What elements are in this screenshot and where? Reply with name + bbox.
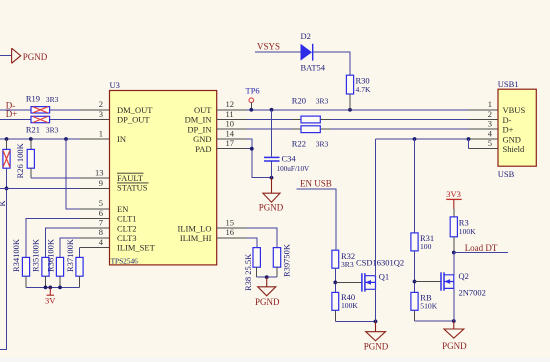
wire OUT row to USB: [247, 109, 469, 111]
svg-text:4.7K: 4.7K: [356, 85, 371, 94]
resistor R36 100K: [46, 238, 64, 287]
capacitor C34 100uF/10V: [264, 153, 310, 177]
junction: [348, 108, 352, 112]
wire DM_IN row: [247, 119, 292, 121]
resistor R35 100K: [31, 238, 49, 287]
transistor Q1 CSD16301Q2: [356, 258, 404, 292]
pin 10 stub U3: [217, 128, 247, 130]
wire R19 to pin2: [50, 109, 80, 111]
svg-text:9: 9: [99, 178, 103, 188]
resistor R26 100K: [15, 139, 35, 178]
svg-text:R21: R21: [26, 125, 40, 135]
wire Load DT: [454, 252, 508, 254]
resistor R34 100K: [11, 238, 29, 287]
U3 left pin names: [117, 105, 156, 253]
svg-text:DP_IN: DP_IN: [187, 124, 211, 134]
wire DP_IN row: [247, 128, 292, 130]
junction: [249, 108, 253, 112]
wire R21 to pin3: [50, 119, 80, 121]
svg-text:R22: R22: [292, 138, 306, 148]
svg-text:PGND: PGND: [255, 297, 280, 307]
wire D- from edge: [0, 109, 31, 111]
wire VSYS: [255, 51, 301, 53]
svg-text:CLT1: CLT1: [117, 214, 137, 224]
wire Q2 gate: [415, 281, 442, 283]
svg-text:6: 6: [99, 208, 103, 218]
svg-text:CLT2: CLT2: [117, 223, 137, 233]
pin 12 stub U3: [217, 109, 247, 111]
pin 5 stub USB1: [469, 148, 499, 150]
resistor R22 3R3: [292, 126, 331, 149]
pin 14 stub U3: [217, 138, 247, 140]
pin 17 stub U3: [217, 148, 247, 150]
svg-text:ILIM_SET: ILIM_SET: [117, 243, 156, 253]
svg-text:C34: C34: [282, 153, 297, 163]
svg-text:100K: 100K: [341, 301, 358, 310]
resistor R39 750K: [273, 243, 291, 277]
wire R38/R39 bottoms: [257, 276, 277, 278]
overline FAULT: [117, 172, 144, 174]
wire Q1 source down: [375, 289, 377, 321]
svg-text:3: 3: [99, 109, 103, 119]
svg-text:R36100K: R36100K: [46, 238, 56, 272]
svg-text:TPS2546: TPS2546: [111, 257, 139, 266]
svg-text:FAULT: FAULT: [117, 173, 144, 183]
svg-text:5: 5: [99, 198, 103, 208]
junction: [5, 187, 9, 191]
sheet bottom edge strip: [0, 358, 550, 362]
svg-text:3R3: 3R3: [46, 126, 59, 135]
resistor R38 25.5K: [243, 248, 261, 291]
svg-text:2: 2: [488, 109, 492, 119]
wire Q2 drain: [453, 253, 455, 275]
pin 3 stub U3: [80, 119, 110, 121]
svg-text:Shield: Shield: [503, 144, 525, 154]
svg-text:GND: GND: [193, 134, 211, 144]
junction: [58, 286, 62, 290]
wire FAULT to R26: [31, 177, 80, 179]
junction: [452, 251, 456, 255]
svg-text:14: 14: [226, 128, 235, 138]
wire R32 to R40: [334, 268, 336, 292]
svg-text:R34100K: R34100K: [11, 238, 21, 272]
pin 8 stub U3: [80, 237, 110, 239]
resistor R19 3R3 (DNP): [26, 94, 59, 114]
svg-text:1: 1: [488, 99, 492, 109]
wire Q1 drain from GND row: [375, 139, 377, 276]
svg-text:TP6: TP6: [246, 85, 260, 95]
wire IN node row: [0, 138, 80, 140]
svg-text:3R3: 3R3: [316, 96, 329, 105]
wire GND row (USB side): [376, 138, 469, 140]
wire PAD node down to C34 bottom: [247, 149, 272, 178]
svg-text:VSYS: VSYS: [257, 42, 280, 52]
svg-text:3R3: 3R3: [46, 95, 59, 104]
pin 1 stub U3: [80, 138, 110, 140]
diode D2 BAT54: [301, 31, 326, 73]
svg-text:100K: 100K: [459, 227, 476, 236]
pin 5 stub U3: [80, 208, 110, 210]
wire R31 drop from GND row: [414, 139, 416, 233]
svg-text:EN: EN: [117, 204, 128, 214]
svg-text:12: 12: [226, 99, 235, 109]
wire Q1 gate: [335, 281, 362, 283]
wire GND pin to PAD: [247, 139, 252, 149]
wire EN from IN node: [66, 139, 80, 209]
junction: [467, 137, 471, 141]
pin 16 stub U3: [217, 237, 247, 239]
svg-text:PGND: PGND: [259, 202, 284, 212]
wire R20 to USB: [331, 119, 469, 121]
svg-text:3R3: 3R3: [316, 139, 329, 148]
U3 right pin numbers: [226, 99, 235, 237]
junction: [5, 137, 9, 141]
pin 6 stub U3: [80, 218, 110, 220]
wire D+ from edge: [0, 119, 31, 121]
svg-text:3R3: 3R3: [341, 260, 354, 269]
svg-text:Load DT: Load DT: [465, 243, 498, 253]
svg-text:PGND: PGND: [364, 341, 389, 351]
pin 15 stub U3: [217, 227, 247, 229]
wire D2 to R30: [313, 52, 350, 75]
wire Q2 source down: [453, 288, 455, 321]
wire R40 bottom to Q1 source: [335, 320, 375, 322]
pin 13 stub U3: [80, 177, 110, 179]
wire ILIM_SET to R37: [79, 248, 81, 258]
resistor R32 3R3: [332, 250, 355, 269]
pin 7 stub U3: [80, 227, 110, 229]
wire R31 to RB: [414, 251, 416, 293]
power 3V3: [446, 189, 462, 209]
wire R22 to USB: [331, 128, 469, 130]
power 3V: [45, 287, 56, 305]
resistor R40 100K: [332, 292, 358, 321]
pin 11 stub U3: [217, 119, 247, 121]
svg-text:510K: 510K: [420, 301, 437, 310]
svg-text:3V3: 3V3: [446, 189, 461, 199]
resistor (left, DNP, label cut off): [0, 139, 10, 207]
svg-text:R37100K: R37100K: [65, 238, 75, 272]
junction: [413, 280, 417, 284]
svg-text:2: 2: [99, 99, 103, 109]
U3 right pin names: [178, 105, 213, 243]
svg-text:ILIM_LO: ILIM_LO: [178, 223, 212, 233]
wire CLT1 to R34: [26, 219, 80, 258]
svg-text:Q1: Q1: [379, 271, 389, 281]
junction: [270, 108, 274, 112]
svg-text:DM_OUT: DM_OUT: [117, 105, 153, 115]
junction: [452, 319, 456, 323]
wire CLT3 to R36: [60, 238, 80, 258]
overline STATUS: [117, 182, 149, 184]
svg-text:100uF/10V: 100uF/10V: [277, 165, 311, 173]
ground PGND (under Q2): [442, 321, 467, 351]
svg-text:100: 100: [420, 242, 432, 251]
svg-text:R26 100K: R26 100K: [15, 142, 25, 178]
svg-text:USB1: USB1: [498, 79, 519, 89]
svg-text:Q2: Q2: [459, 271, 469, 281]
svg-text:R20: R20: [292, 95, 306, 105]
junction: [64, 137, 68, 141]
junction: [333, 281, 337, 285]
pin 2 stub USB1: [469, 119, 499, 121]
op-amp U3 TPS2546 body: [110, 91, 217, 265]
svg-text:CLT3: CLT3: [117, 233, 137, 243]
wire CLT2 to R35: [46, 228, 80, 257]
svg-text:R38 25.5K: R38 25.5K: [243, 253, 253, 291]
resistor R21 3R3 (DNP): [26, 116, 59, 134]
resistor R31 100: [411, 233, 434, 251]
junction: [44, 286, 48, 290]
svg-text:D+: D+: [6, 109, 18, 119]
svg-text:8: 8: [99, 227, 103, 237]
ground PGND (under C34): [259, 178, 284, 213]
junction: [374, 320, 378, 324]
svg-text:7: 7: [99, 218, 103, 228]
svg-text:U3: U3: [110, 80, 120, 90]
resistor RB 510K: [411, 292, 438, 321]
svg-text:USB: USB: [498, 169, 515, 179]
ground PGND (under R38/R39): [255, 277, 280, 307]
svg-text:3: 3: [488, 119, 492, 129]
ground PGND (under Q1): [364, 321, 389, 351]
svg-text:GND: GND: [503, 134, 521, 144]
svg-text:PGND: PGND: [442, 341, 467, 351]
port PGND (top left): [0, 48, 48, 63]
wire RB bottom to Q2 source: [415, 320, 454, 322]
pin 4 stub USB1: [469, 138, 499, 140]
pin 2 stub U3: [80, 109, 110, 111]
junction: [413, 137, 417, 141]
svg-text:VBUS: VBUS: [503, 105, 526, 115]
pin 4 stub U3: [80, 247, 110, 249]
pin 3 stub USB1: [469, 128, 499, 130]
junction: [270, 176, 274, 180]
svg-text:STATUS: STATUS: [117, 183, 148, 193]
transistor Q2 2N7002: [441, 271, 486, 298]
junction: [265, 275, 269, 279]
svg-text:D+: D+: [503, 125, 514, 135]
pin 9 stub U3: [80, 187, 110, 189]
testpoint TP6: [246, 85, 260, 110]
svg-text:EN USB: EN USB: [300, 179, 332, 189]
svg-text:OUT: OUT: [194, 105, 212, 115]
svg-text:R19: R19: [26, 94, 40, 104]
svg-text:R39750K: R39750K: [282, 243, 292, 277]
svg-text:DM_IN: DM_IN: [185, 115, 212, 125]
svg-text:13: 13: [95, 167, 104, 177]
svg-text:2N7002: 2N7002: [459, 287, 486, 297]
svg-text:D2: D2: [301, 31, 311, 41]
wire Shield to GND: [468, 139, 470, 149]
svg-text:BAT54: BAT54: [301, 63, 326, 73]
svg-text:CSD16301Q2: CSD16301Q2: [356, 258, 404, 268]
wire ILIM_HI to R38: [247, 238, 257, 248]
svg-text:K: K: [0, 200, 7, 207]
connector USB1 body: [498, 89, 536, 166]
resistor R20 3R3: [292, 95, 331, 123]
svg-text:ILIM_HI: ILIM_HI: [180, 233, 212, 243]
svg-text:IN: IN: [117, 134, 126, 144]
junction: [48, 286, 52, 290]
wire OUT row down to C34: [271, 110, 273, 157]
USB1 pin names: [503, 105, 526, 154]
svg-text:PGND: PGND: [23, 52, 48, 62]
svg-text:D-: D-: [503, 115, 512, 125]
svg-text:15: 15: [226, 218, 235, 228]
svg-text:5: 5: [488, 138, 492, 148]
svg-text:3V: 3V: [45, 296, 56, 306]
junction: [29, 137, 33, 141]
svg-text:PAD: PAD: [195, 144, 211, 154]
wire STATUS from edge: [0, 187, 80, 189]
wire left vertical to bottom edge: [0, 168, 7, 349]
svg-text:DP_OUT: DP_OUT: [117, 115, 150, 125]
wire EN USB to R32: [297, 189, 337, 250]
resistor R30 4.7K: [346, 75, 371, 110]
resistor R3 100K: [450, 209, 476, 253]
svg-text:R35100K: R35100K: [31, 238, 41, 272]
wire bottom rail of R34-R37: [26, 286, 80, 288]
wire ILIM_LO to R39: [247, 228, 277, 247]
resistor R37 100K: [65, 238, 83, 287]
pin 1 stub USB1: [469, 109, 499, 111]
svg-text:1: 1: [99, 128, 103, 138]
junction: [250, 147, 254, 151]
